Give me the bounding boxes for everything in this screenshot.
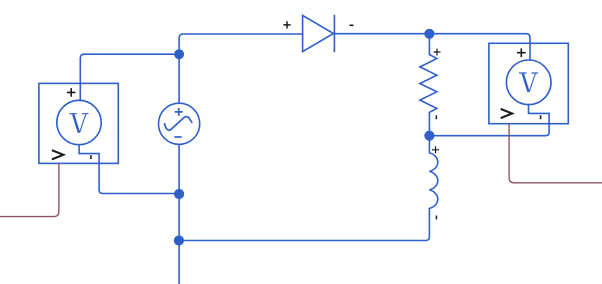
- inductor L1 + label: [432, 146, 439, 153]
- source V1 plus mark: [175, 108, 183, 116]
- diode D1 triangle: [303, 15, 334, 51]
- node E junction: [174, 49, 184, 59]
- node C junction: [174, 189, 184, 199]
- inductor L1 - label: [436, 216, 438, 220]
- node D junction: [174, 235, 184, 245]
- voltmeter U2 + label: [517, 48, 526, 57]
- source V1 sine squiggle: [165, 117, 192, 131]
- voltmeter U2 - label: [540, 115, 542, 119]
- wire from source V1 - terminal down through node C and node D to bottom edge: [178, 144, 180, 284]
- voltmeter U2 body: [489, 43, 568, 123]
- wire from voltmeter U1 - terminal down and right to node C: [79, 145, 179, 194]
- voltmeter U2 probe arrow: [501, 109, 512, 118]
- wire from inductor L1 bottom down and left to node D: [179, 208, 430, 240]
- voltmeter U2 dial circle: [506, 60, 551, 105]
- diode D1 cathode bar: [333, 15, 335, 51]
- wire from diode D1 cathode through node A to voltmeter U2 + terminal: [334, 34, 530, 60]
- source V1 minus mark: [174, 136, 181, 138]
- resistor R1 - label: [436, 115, 438, 119]
- probe wire from voltmeter U1 to left edge: [0, 163, 59, 216]
- inductor L1: [429, 136, 437, 209]
- voltmeter U1 V glyph: [69, 114, 88, 133]
- wire from node E down to source V1 + terminal: [178, 54, 180, 103]
- source V1 circle: [159, 103, 200, 144]
- resistor R1 + label: [434, 49, 441, 56]
- resistor R1: [420, 55, 437, 136]
- diode D1 + label: [283, 21, 290, 28]
- wire from voltmeter U2 - terminal down and left to node B: [429, 105, 549, 136]
- node A junction: [424, 29, 434, 39]
- voltmeter U1 + label: [67, 88, 76, 97]
- voltmeter U1 body: [39, 83, 118, 163]
- voltmeter U1 - label: [90, 155, 92, 159]
- probe wire from voltmeter U2 to right edge: [509, 124, 602, 183]
- wire from node E up and right to diode D1 anode: [179, 34, 303, 54]
- wire from voltmeter U1 + terminal up and right to node E: [80, 54, 179, 100]
- voltmeter U2 V glyph: [519, 73, 538, 92]
- diode D1 - label: [350, 25, 354, 27]
- node B junction: [424, 131, 434, 141]
- voltmeter U1 probe arrow: [52, 150, 63, 159]
- wire from node A down to resistor R1 top: [428, 34, 430, 55]
- voltmeter U1 dial circle: [57, 100, 101, 144]
